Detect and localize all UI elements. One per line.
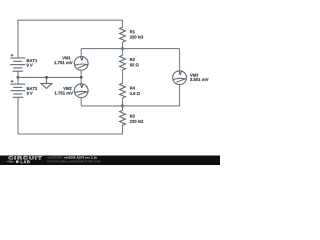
wire bottom tap rail VM2 to VM3 <box>81 105 179 107</box>
logo word CIRCUIT <box>9 156 42 159</box>
wire top rail <box>18 20 123 57</box>
value R4 3.6 Ohm <box>130 92 140 95</box>
label R4 <box>130 87 135 90</box>
wire R1 to R2 through top tap junction <box>122 42 124 55</box>
value VM1 1.751 mV <box>54 61 72 64</box>
value VM3 3.501 mV <box>190 78 209 81</box>
wire mid rail to meters junction <box>18 76 81 78</box>
watermark title text <box>64 156 97 158</box>
plus sign BAT1 <box>11 54 14 57</box>
label VM1 <box>62 56 70 59</box>
label VM3 <box>190 74 198 77</box>
watermark bar <box>0 156 220 166</box>
plus sign BAT2 <box>11 80 14 83</box>
meter letter V of VM3 <box>179 71 182 74</box>
resistor R1 <box>120 27 126 42</box>
voltmeter VM1 <box>74 57 88 71</box>
label R2 <box>130 58 135 61</box>
wire top tap rail VM1 to VM3 <box>81 48 179 50</box>
wire BAT2 top stub <box>17 77 19 84</box>
value R1 220 kOhm <box>130 35 143 38</box>
wire VM3 riser from top tap <box>179 49 181 71</box>
value R2 82 Ohm <box>130 63 139 66</box>
wire VM2 bottom to bottom tap <box>80 98 82 106</box>
label BAT2 <box>27 87 37 90</box>
wire meters junction to VM2 top <box>80 77 82 83</box>
resistor R4 <box>120 83 126 98</box>
wire VM1 bottom to meters junction <box>80 70 82 77</box>
value BAT1 9 V <box>27 64 33 67</box>
meter letter V of VM1 <box>80 57 83 60</box>
voltmeter VM3 <box>173 71 187 85</box>
node top tap junction <box>121 47 124 50</box>
label VM2 <box>63 87 71 90</box>
wire R2 to R4 <box>122 70 124 83</box>
value R3 220 kOhm <box>130 120 143 123</box>
voltmeter VM2 <box>74 84 88 98</box>
wire BAT1 bottom to mid node <box>17 71 19 77</box>
logo word LAB <box>21 160 30 163</box>
label R3 <box>130 115 135 118</box>
meter letter V of VM2 <box>80 84 83 87</box>
node meters junction <box>80 76 83 79</box>
wire VM3 bottom to bottom tap <box>179 85 181 106</box>
node battery midpoint <box>17 76 20 79</box>
label R1 <box>130 30 135 33</box>
wire left rail bottom and bottom rail <box>18 97 123 134</box>
watermark url <box>48 160 101 163</box>
wire VM1 riser to top tap <box>80 49 82 57</box>
value BAT2 9 V <box>27 92 33 95</box>
resistor R2 <box>120 55 126 70</box>
node ground tap <box>45 76 48 79</box>
wire R4 to R3 through bottom tap junction <box>122 98 124 110</box>
node bottom tap junction <box>121 105 124 108</box>
watermark id text <box>48 156 64 158</box>
label BAT1 <box>27 59 37 62</box>
battery BAT1 <box>10 58 25 71</box>
value VM2 1.751 mV <box>55 92 73 95</box>
battery BAT2 <box>10 84 25 97</box>
resistor R3 <box>120 110 126 125</box>
ground <box>41 77 52 88</box>
